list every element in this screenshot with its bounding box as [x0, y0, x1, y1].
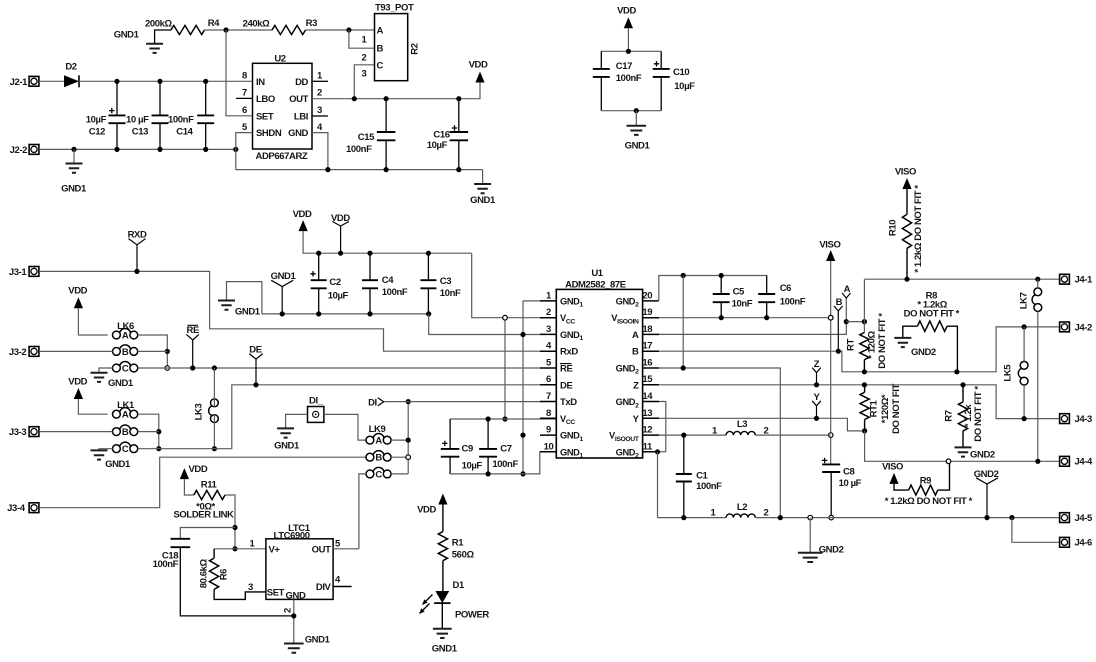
svg-text:100nF: 100nF	[153, 559, 179, 570]
svg-text:C15: C15	[358, 132, 375, 143]
svg-text:B: B	[377, 44, 384, 55]
svg-text:J4-5: J4-5	[1075, 513, 1094, 524]
svg-text:D1: D1	[453, 580, 465, 591]
svg-text:LTC6900: LTC6900	[274, 530, 310, 541]
svg-text:C10: C10	[673, 67, 689, 78]
svg-text:10µF: 10µF	[674, 81, 695, 92]
svg-text:* 1.2kΩ DO NOT FIT *: * 1.2kΩ DO NOT FIT *	[885, 496, 973, 507]
svg-text:GND1: GND1	[305, 634, 331, 645]
svg-text:C17: C17	[616, 61, 632, 72]
svg-text:GND1: GND1	[108, 378, 134, 389]
svg-text:R6: R6	[219, 569, 230, 580]
svg-text:RxD: RxD	[560, 347, 578, 358]
svg-text:VDD: VDD	[617, 6, 636, 17]
svg-text:VDD: VDD	[293, 209, 312, 220]
svg-text:A: A	[122, 410, 129, 421]
svg-text:C3: C3	[440, 276, 451, 287]
svg-text:C16: C16	[433, 129, 449, 140]
svg-text:100nF: 100nF	[168, 115, 194, 126]
svg-text:GND1: GND1	[432, 643, 458, 654]
svg-text:SHDN: SHDN	[256, 128, 282, 139]
svg-text:C12: C12	[89, 126, 105, 137]
svg-text:DO NOT FIT: DO NOT FIT	[891, 383, 902, 433]
svg-text:10 µF: 10 µF	[839, 478, 862, 489]
svg-text:LK7: LK7	[1019, 292, 1030, 309]
svg-text:10: 10	[544, 441, 554, 452]
svg-text:B: B	[632, 347, 639, 358]
svg-text:A: A	[377, 26, 384, 37]
svg-text:R2: R2	[410, 43, 421, 54]
svg-text:10µF: 10µF	[86, 115, 107, 126]
svg-text:VDD: VDD	[417, 505, 436, 516]
svg-text:2: 2	[282, 608, 293, 613]
svg-text:T93_POT: T93_POT	[375, 3, 414, 14]
svg-text:C6: C6	[780, 283, 791, 294]
svg-text:12: 12	[642, 425, 652, 436]
svg-text:C14: C14	[176, 126, 193, 137]
svg-text:RT1: RT1	[869, 400, 880, 418]
svg-text:100nF: 100nF	[696, 481, 722, 492]
svg-text:14: 14	[642, 391, 653, 402]
svg-text:VISO: VISO	[882, 462, 903, 473]
svg-text:C: C	[122, 363, 129, 374]
svg-text:10µF: 10µF	[427, 140, 448, 151]
svg-text:C4: C4	[382, 275, 394, 286]
svg-text:R11: R11	[201, 480, 218, 491]
svg-text:ADM2582_87E: ADM2582_87E	[565, 279, 626, 290]
svg-text:U2: U2	[274, 53, 285, 64]
svg-text:J2-2: J2-2	[10, 145, 28, 156]
svg-text:16: 16	[642, 358, 652, 369]
svg-text:200kΩ: 200kΩ	[145, 18, 173, 29]
svg-text:DIV: DIV	[316, 582, 332, 593]
svg-text:560Ω: 560Ω	[452, 550, 475, 561]
svg-text:10nF: 10nF	[440, 288, 461, 299]
svg-text:SET: SET	[256, 111, 274, 122]
svg-text:U1: U1	[591, 268, 603, 279]
svg-text:GND1: GND1	[114, 30, 140, 41]
svg-text:GND2: GND2	[819, 545, 844, 556]
svg-text:9: 9	[546, 425, 551, 436]
svg-text:* 1.2kΩ DO NOT FIT *: * 1.2kΩ DO NOT FIT *	[913, 185, 924, 273]
svg-text:3: 3	[362, 69, 367, 80]
svg-text:A: A	[122, 330, 129, 341]
svg-text:VISO: VISO	[895, 167, 916, 178]
svg-text:LBI: LBI	[294, 111, 308, 122]
svg-text:GND2: GND2	[911, 347, 936, 358]
svg-text:10µF: 10µF	[462, 460, 483, 471]
svg-text:100nF: 100nF	[346, 144, 372, 155]
svg-text:DI_: DI_	[309, 396, 324, 407]
svg-text:SET: SET	[267, 587, 285, 598]
svg-text:OUT: OUT	[312, 544, 331, 555]
svg-text:J4-1: J4-1	[1075, 275, 1094, 286]
svg-text:OUT: OUT	[289, 94, 308, 105]
svg-text:B: B	[375, 453, 382, 464]
svg-text:J4-3: J4-3	[1075, 414, 1093, 425]
svg-text:R3: R3	[306, 18, 317, 29]
svg-text:DO NOT FIT *: DO NOT FIT *	[904, 308, 960, 319]
svg-text:J4-2: J4-2	[1075, 322, 1093, 333]
svg-text:L3: L3	[737, 419, 747, 430]
svg-text:R9: R9	[920, 475, 931, 486]
svg-text:15: 15	[642, 374, 653, 385]
svg-text:100nF: 100nF	[616, 73, 642, 84]
svg-text:LBO: LBO	[256, 94, 275, 105]
svg-text:6: 6	[546, 374, 551, 385]
svg-text:GND: GND	[288, 128, 308, 139]
svg-text:3: 3	[546, 324, 551, 335]
svg-text:DO NOT FIT *: DO NOT FIT *	[877, 313, 888, 369]
svg-text:DO NOT FIT *: DO NOT FIT *	[973, 386, 984, 442]
svg-text:C9: C9	[462, 444, 473, 455]
svg-text:A: A	[375, 436, 382, 447]
svg-text:RE: RE	[560, 364, 572, 375]
svg-text:V+: V+	[269, 544, 281, 555]
svg-text:240kΩ: 240kΩ	[243, 18, 271, 29]
svg-text:GND1: GND1	[274, 441, 300, 452]
svg-text:GND2: GND2	[970, 449, 995, 460]
svg-text:DI: DI	[368, 397, 377, 408]
svg-text:R7: R7	[944, 410, 955, 421]
svg-text:100nF: 100nF	[492, 459, 518, 470]
svg-text:19: 19	[642, 307, 652, 318]
svg-text:*120Ω*: *120Ω*	[880, 394, 891, 423]
svg-text:8: 8	[242, 71, 247, 82]
svg-text:ADP667ARZ: ADP667ARZ	[256, 151, 308, 162]
svg-text:C13: C13	[132, 126, 148, 137]
svg-text:IN: IN	[256, 77, 265, 88]
svg-text:C2: C2	[329, 277, 340, 288]
svg-text:A: A	[632, 330, 639, 341]
svg-text:GND1: GND1	[470, 195, 496, 206]
svg-text:100nF: 100nF	[382, 287, 408, 298]
svg-text:J3-1: J3-1	[9, 267, 28, 278]
svg-text:B: B	[122, 427, 129, 438]
svg-text:C7: C7	[500, 443, 511, 454]
svg-text:LK5: LK5	[1003, 364, 1014, 382]
svg-text:J4-6: J4-6	[1075, 538, 1093, 549]
svg-text:R10: R10	[888, 220, 899, 236]
svg-text:7: 7	[546, 391, 551, 402]
svg-text:Z: Z	[814, 359, 820, 370]
svg-text:RE: RE	[186, 325, 198, 336]
svg-text:3: 3	[248, 582, 253, 593]
svg-text:18: 18	[642, 324, 652, 335]
svg-text:J3-3: J3-3	[9, 427, 27, 438]
svg-text:2: 2	[317, 88, 322, 99]
svg-text:C: C	[377, 60, 384, 71]
svg-text:DE: DE	[560, 380, 572, 391]
svg-text:C5: C5	[733, 287, 745, 298]
svg-text:TxD: TxD	[560, 397, 577, 408]
svg-text:8: 8	[546, 408, 551, 419]
svg-text:11: 11	[643, 441, 653, 452]
svg-text:20: 20	[642, 290, 652, 301]
svg-text:J2-1: J2-1	[10, 77, 29, 88]
svg-text:2: 2	[764, 508, 769, 519]
svg-text:GND1: GND1	[625, 141, 651, 152]
svg-text:VDD: VDD	[189, 464, 208, 475]
svg-text:R4: R4	[208, 18, 220, 29]
svg-text:2: 2	[546, 307, 551, 318]
svg-text:80.6kΩ: 80.6kΩ	[199, 559, 210, 589]
svg-text:J3-2: J3-2	[9, 347, 27, 358]
svg-text:DE: DE	[249, 345, 261, 356]
svg-text:RT: RT	[846, 338, 857, 350]
svg-text:POWER: POWER	[455, 609, 489, 620]
svg-text:L2: L2	[737, 502, 747, 513]
svg-text:B: B	[122, 347, 129, 358]
svg-text:R1: R1	[452, 537, 464, 548]
svg-text:100nF: 100nF	[780, 297, 806, 308]
svg-text:* 120Ω: * 120Ω	[867, 331, 878, 359]
svg-text:VDD: VDD	[68, 376, 87, 387]
svg-text:GND1: GND1	[105, 459, 131, 470]
svg-text:C: C	[375, 469, 382, 480]
svg-text:7: 7	[242, 88, 247, 99]
svg-text:17: 17	[642, 341, 652, 352]
svg-text:6: 6	[242, 105, 247, 116]
svg-text:Z: Z	[633, 380, 639, 391]
svg-text:10µF: 10µF	[328, 291, 349, 302]
svg-text:GND: GND	[286, 591, 306, 602]
svg-text:2: 2	[362, 52, 367, 63]
svg-text:VDD: VDD	[469, 60, 488, 71]
svg-text:10 µF: 10 µF	[126, 115, 149, 126]
svg-text:J3-4: J3-4	[7, 503, 26, 514]
svg-text:C: C	[122, 444, 129, 455]
svg-text:3: 3	[317, 105, 322, 116]
svg-text:D2: D2	[65, 62, 76, 73]
svg-text:C8: C8	[843, 466, 854, 477]
svg-text:GND1: GND1	[235, 307, 261, 318]
svg-text:VDD: VDD	[68, 286, 87, 297]
svg-text:SOLDER LINK: SOLDER LINK	[174, 509, 235, 520]
svg-text:DD: DD	[295, 77, 308, 88]
svg-text:2: 2	[764, 425, 769, 436]
svg-text:13: 13	[642, 408, 652, 419]
svg-text:LK3: LK3	[194, 404, 205, 421]
svg-text:J4-4: J4-4	[1075, 457, 1094, 468]
svg-text:10nF: 10nF	[732, 299, 753, 310]
svg-text:VISO: VISO	[819, 239, 840, 250]
svg-text:GND1: GND1	[61, 184, 87, 195]
svg-text:C1: C1	[696, 470, 708, 481]
